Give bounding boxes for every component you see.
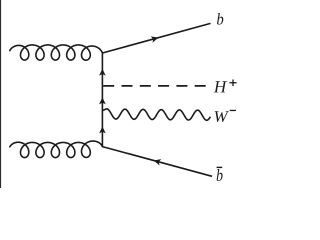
label W of W- [215,111,229,122]
arrow on vertical segment V2-V1 [99,69,106,76]
internal fermion propagator (vertical) [101,53,103,147]
superscript + of H+ [229,80,236,87]
dashed scalar line H+ [103,85,206,87]
frame left border [0,0,1,188]
overline bar of bbar [217,167,223,168]
label b of bbar (bottom right) [217,169,223,181]
wavy boson line W- [102,109,210,120]
gluon g2 (bottom incoming) [10,141,103,158]
arrow on bbar line (points toward vertex) [154,159,162,165]
superscript minus of W- [230,110,236,111]
fermion line b (outgoing top) [102,23,210,53]
arrow on b line [151,36,159,42]
label H of H+ [214,81,227,92]
fermion line bbar (incoming bottom-right) [102,147,212,177]
gluon g1 (top incoming) [10,45,103,60]
label b (top right) [217,13,223,25]
arrow on vertical segment V4-V3 [99,126,106,133]
arrow on vertical segment V3-V2 [99,97,106,104]
